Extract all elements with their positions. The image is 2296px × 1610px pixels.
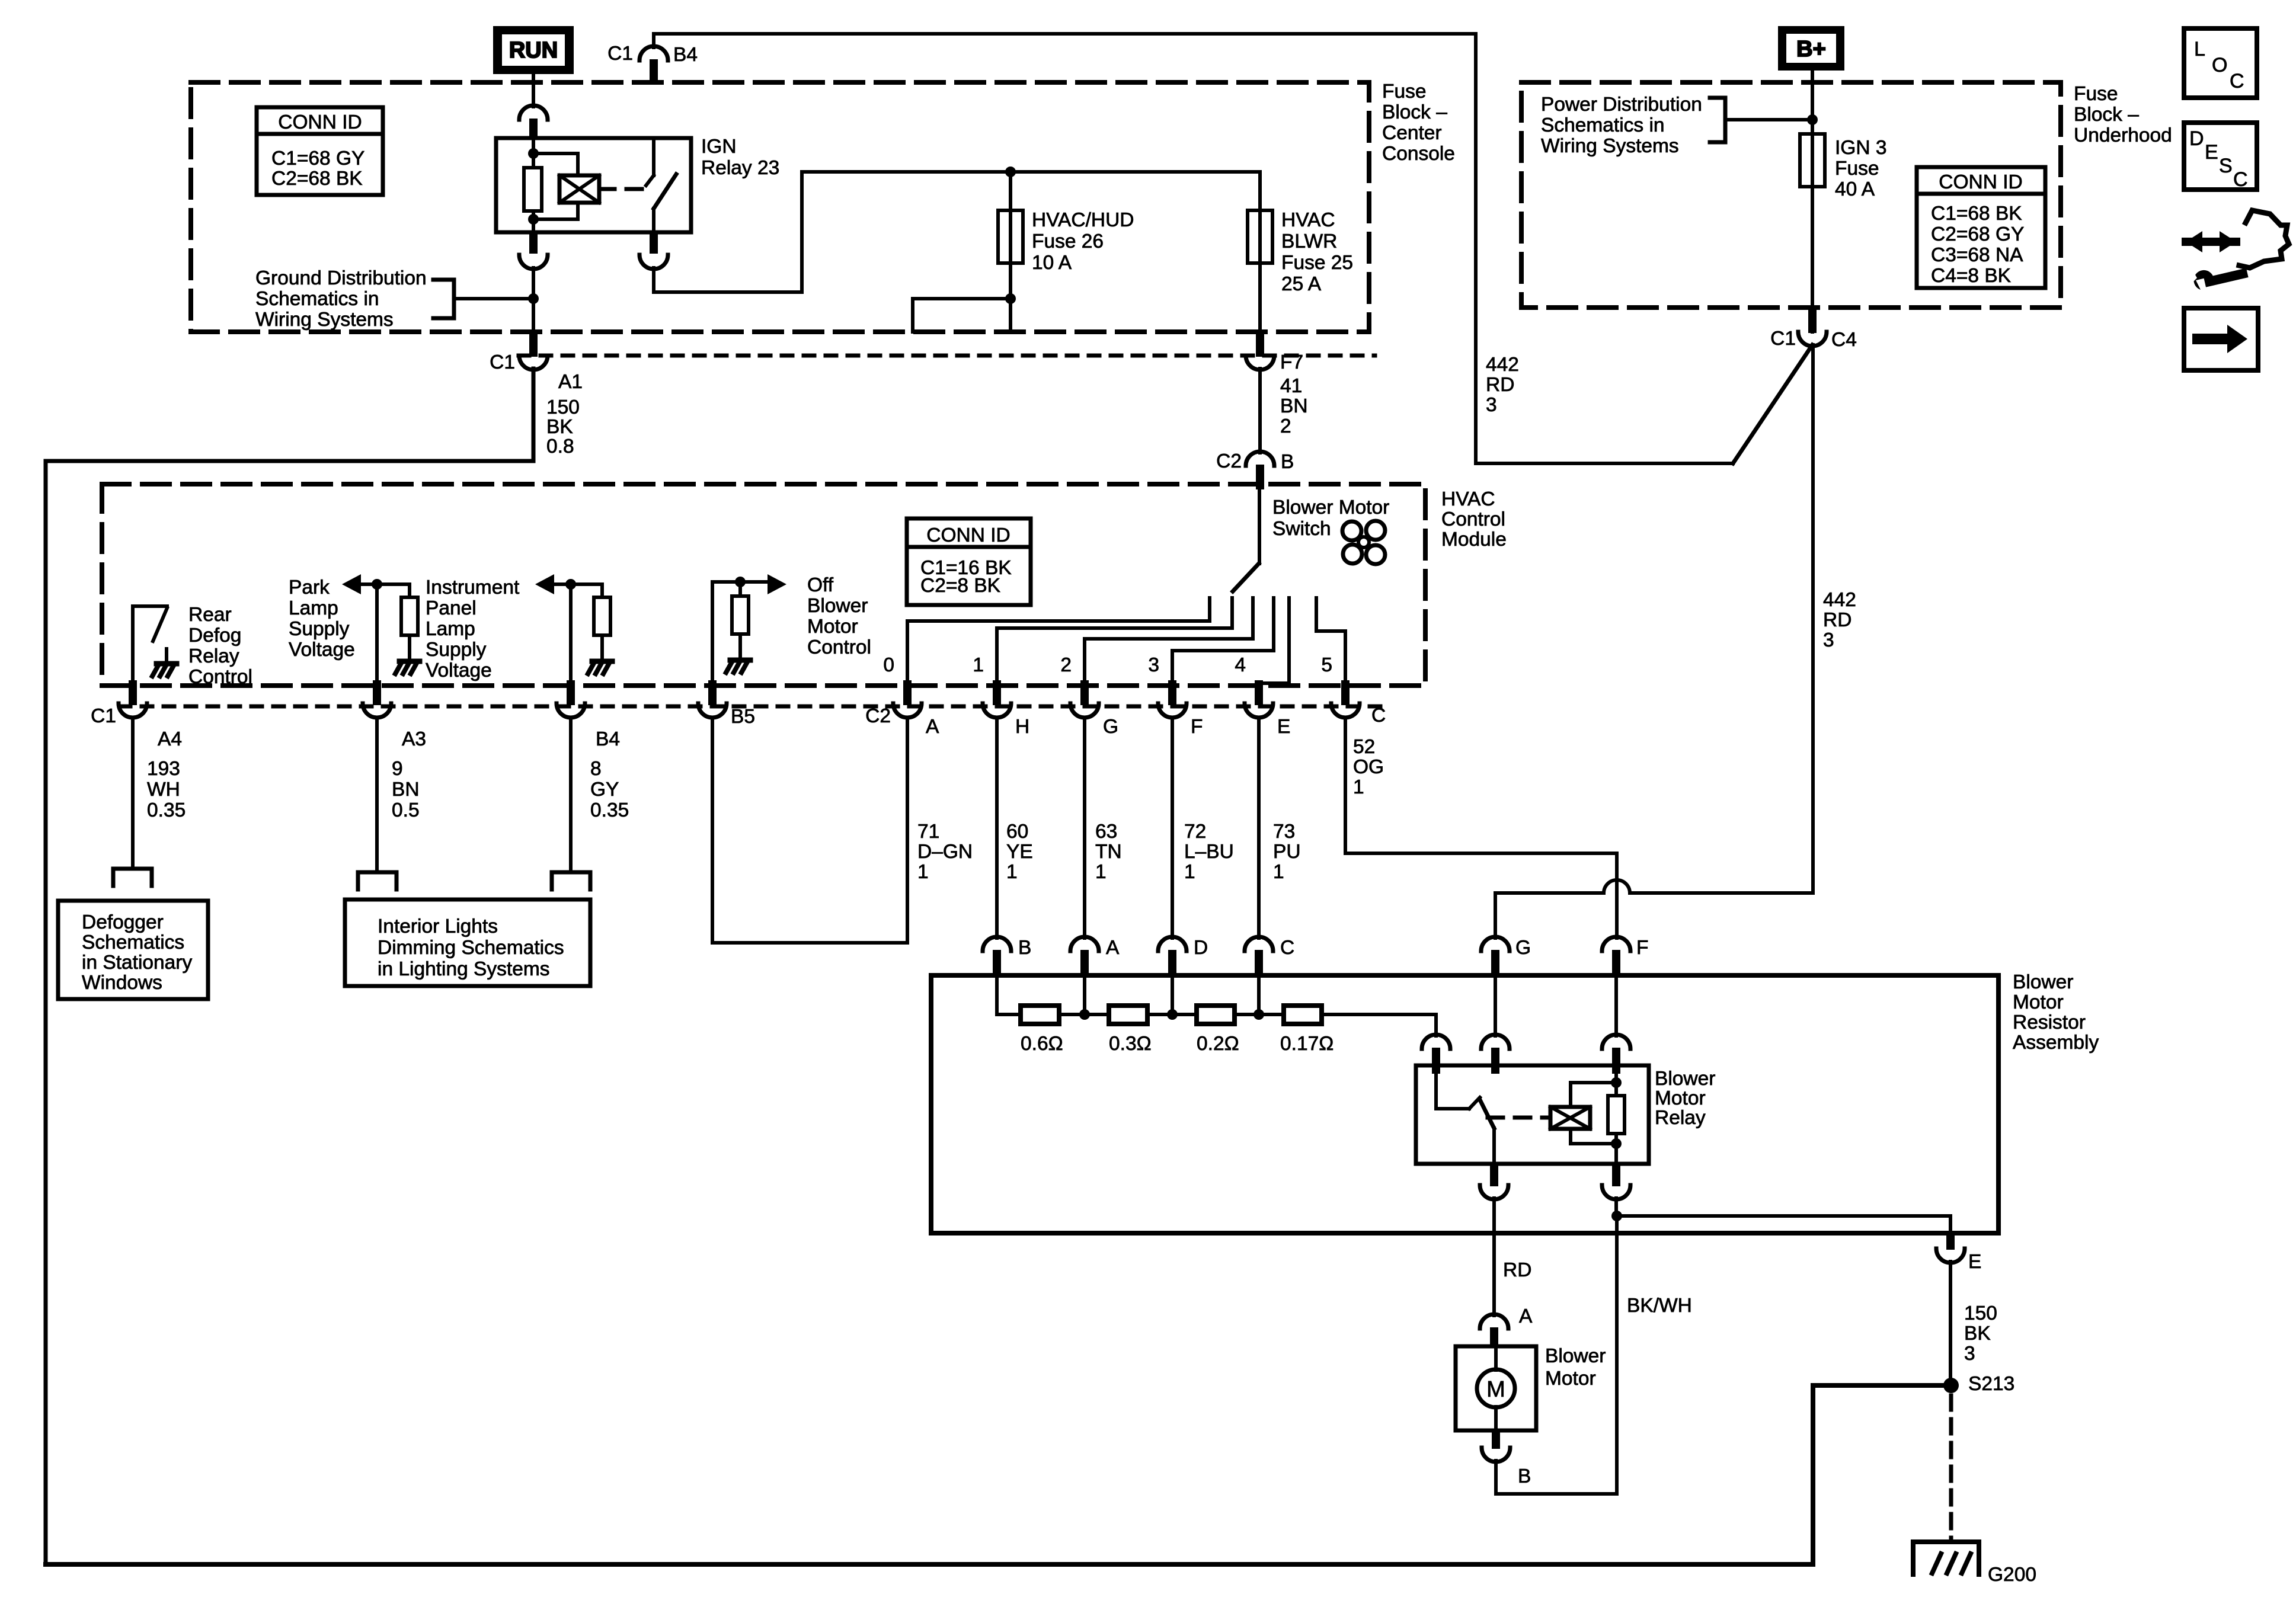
junction dot park lamp — [372, 579, 382, 590]
wire 41 BN 2 — [1258, 369, 1262, 453]
blower motor switch feed wire — [1258, 489, 1261, 564]
wire G to relay — [1494, 977, 1497, 1036]
junction dot D rail — [1167, 1009, 1178, 1020]
svg-text:Blower: Blower — [2013, 971, 2073, 993]
terminal staple A3 — [358, 872, 396, 889]
blower relay coil bracket — [1571, 1083, 1616, 1144]
svg-text:Instrument: Instrument — [426, 577, 520, 598]
off blower resistor — [738, 582, 742, 596]
ign relay coil resistor — [532, 138, 535, 168]
svg-text:Fuse: Fuse — [1835, 158, 1879, 180]
svg-text:Supply: Supply — [289, 618, 350, 640]
ign relay switch — [652, 138, 655, 175]
blower relay linkage dash — [1488, 1116, 1548, 1120]
svg-text:C: C — [2233, 168, 2248, 191]
svg-text:IGN 3: IGN 3 — [1835, 137, 1887, 159]
connector E (hvac module row) — [1255, 680, 1263, 705]
svg-text:Dimming Schematics: Dimming Schematics — [378, 937, 564, 959]
relay input connector (coil) — [1602, 1035, 1630, 1049]
resistor 0.17 ohm — [1284, 1006, 1322, 1024]
svg-text:3: 3 — [1964, 1343, 1975, 1365]
svg-text:OG: OG — [1353, 756, 1384, 778]
svg-text:9: 9 — [392, 758, 403, 780]
svg-text:PU: PU — [1273, 841, 1301, 863]
icon box DESC — [2184, 123, 2257, 190]
svg-text:1: 1 — [1273, 861, 1284, 883]
svg-text:in Lighting Systems: in Lighting Systems — [378, 958, 549, 980]
wire RUN to fuse block connector — [532, 74, 535, 107]
svg-text:HVAC/HUD: HVAC/HUD — [1032, 209, 1134, 231]
junction dot instrument panel — [565, 579, 576, 590]
svg-text:A4: A4 — [158, 728, 182, 750]
fuse IGN 3 40A — [1811, 134, 1814, 187]
connector E (resistor assembly) — [1946, 1233, 1955, 1250]
svg-text:0.17Ω: 0.17Ω — [1280, 1033, 1334, 1055]
connector A3 — [373, 680, 381, 705]
svg-text:Lamp: Lamp — [426, 618, 475, 640]
wire 193 WH 0.35 (A4) — [131, 719, 135, 869]
instrument panel ground — [600, 635, 604, 659]
svg-text:M: M — [1486, 1377, 1505, 1402]
instrument panel resistor — [594, 597, 610, 635]
svg-text:3: 3 — [1823, 629, 1834, 651]
svg-text:2: 2 — [1060, 654, 1072, 676]
wire B+ down — [1811, 71, 1814, 134]
svg-text:3: 3 — [1148, 654, 1159, 676]
off blower ground — [738, 634, 742, 658]
svg-text:H: H — [1015, 716, 1029, 738]
connector A (hvac module row) — [903, 680, 912, 705]
svg-text:Relay: Relay — [1655, 1107, 1706, 1129]
wire 52 OG 1 (C) — [1345, 718, 1617, 938]
junction dot ground distribution — [528, 293, 539, 304]
switch position 0 contact wire — [907, 598, 1210, 689]
svg-text:YE: YE — [1006, 841, 1033, 863]
wire fuse 25 down to F7 — [1258, 263, 1262, 332]
ign relay coil junction dots — [528, 148, 539, 159]
connector A4 — [129, 680, 137, 705]
svg-text:C1: C1 — [490, 351, 515, 373]
svg-text:C2: C2 — [865, 705, 891, 727]
ign relay coil bracket wire — [533, 153, 578, 219]
svg-text:Switch: Switch — [1272, 518, 1331, 540]
svg-text:Console: Console — [1382, 143, 1455, 165]
junction dots relay coil — [1611, 1077, 1622, 1088]
svg-text:CONN ID: CONN ID — [926, 524, 1010, 546]
svg-text:A: A — [1519, 1305, 1533, 1327]
connector A (resistor assembly) — [1070, 937, 1099, 951]
svg-text:Windows: Windows — [82, 972, 162, 994]
ground distribution bracket — [433, 280, 454, 318]
svg-text:71: 71 — [917, 821, 939, 843]
svg-text:0.35: 0.35 — [147, 799, 186, 821]
svg-text:BK/WH: BK/WH — [1627, 1295, 1692, 1317]
svg-text:C1=68 GY: C1=68 GY — [271, 148, 364, 169]
svg-text:D: D — [2189, 127, 2204, 150]
svg-text:E: E — [1968, 1251, 1981, 1273]
svg-text:Resistor: Resistor — [2013, 1012, 2086, 1033]
svg-text:Schematics in: Schematics in — [255, 288, 379, 310]
junction dot B+ feed — [1807, 114, 1818, 125]
svg-text:0.35: 0.35 — [590, 799, 629, 821]
connector B blower motor — [1492, 1430, 1500, 1449]
svg-text:BLWR: BLWR — [1281, 231, 1337, 252]
svg-text:BK: BK — [546, 416, 573, 438]
svg-text:Defogger: Defogger — [82, 911, 164, 933]
svg-text:C1=68 BK: C1=68 BK — [1931, 203, 2022, 225]
connector below relay (switch output) — [1490, 1164, 1498, 1186]
wire BK/WH from motor — [1496, 1216, 1617, 1494]
wire B5 to A loop — [712, 719, 907, 943]
blower relay coil wire — [1614, 1074, 1618, 1096]
wire A3 pin — [375, 584, 379, 686]
svg-text:1: 1 — [1184, 861, 1195, 883]
relay input connector (switch output) — [1481, 1035, 1510, 1049]
svg-text:52: 52 — [1353, 736, 1375, 758]
svg-text:S: S — [2219, 155, 2233, 177]
connector A blower motor — [1480, 1314, 1508, 1329]
svg-text:2: 2 — [1280, 415, 1291, 437]
svg-text:C1: C1 — [1770, 328, 1796, 350]
svg-text:60: 60 — [1006, 821, 1028, 843]
wire junction to fuse 26 — [1009, 172, 1012, 210]
svg-text:TN: TN — [1095, 841, 1122, 863]
svg-text:GY: GY — [590, 779, 619, 801]
connector H (hvac module row) — [993, 680, 1001, 705]
connector F (resistor assembly) — [1602, 937, 1630, 951]
svg-text:Relay: Relay — [188, 645, 239, 667]
blower motor box — [1456, 1346, 1536, 1430]
wire D into resistor network — [1171, 977, 1174, 1014]
svg-text:S213: S213 — [1968, 1373, 2014, 1395]
svg-text:C4: C4 — [1831, 329, 1857, 351]
wire 73 PU 1 (E) — [1257, 718, 1261, 938]
switch position 1 contact wire — [997, 598, 1232, 689]
connector C2 B into hvac module — [1246, 452, 1274, 466]
connector below relay switch — [650, 232, 658, 254]
svg-text:Supply: Supply — [426, 639, 487, 661]
svg-text:C4=8 BK: C4=8 BK — [1931, 265, 2011, 287]
wire 150 BK 3 — [1949, 1262, 1952, 1381]
svg-text:A3: A3 — [402, 728, 426, 750]
interior lights dimming box — [345, 900, 590, 986]
svg-text:Schematics: Schematics — [82, 932, 184, 953]
svg-text:RD: RD — [1503, 1259, 1531, 1281]
fan icon — [1342, 521, 1385, 564]
svg-text:Blower: Blower — [1655, 1068, 1715, 1090]
terminal staple B4 — [552, 872, 590, 889]
svg-text:Control: Control — [1441, 508, 1505, 530]
svg-text:Voltage: Voltage — [426, 660, 492, 681]
svg-text:40 A: 40 A — [1835, 178, 1875, 200]
wire S213 to bottom run — [46, 1385, 1951, 1564]
connector B (resistor assembly) — [983, 937, 1011, 951]
connector C (resistor assembly) — [1245, 937, 1273, 951]
svg-text:HVAC: HVAC — [1281, 209, 1335, 231]
connector C1 C4 — [1808, 308, 1817, 333]
svg-text:Fuse: Fuse — [1382, 81, 1426, 103]
instrument panel supply wire — [552, 584, 602, 597]
svg-text:3: 3 — [1486, 394, 1497, 416]
svg-text:41: 41 — [1280, 375, 1302, 397]
svg-text:C1: C1 — [607, 43, 633, 65]
connector C (hvac module row) — [1341, 680, 1350, 705]
connector D (resistor assembly) — [1158, 937, 1187, 951]
resistor 0.3 ohm — [1109, 1006, 1147, 1024]
svg-text:Wiring Systems: Wiring Systems — [1541, 135, 1679, 157]
svg-text:Motor: Motor — [1655, 1087, 1706, 1109]
svg-text:B: B — [1018, 937, 1031, 959]
svg-text:B5: B5 — [731, 706, 755, 728]
connector G (hvac module row) — [1080, 680, 1089, 705]
svg-text:Motor: Motor — [2013, 991, 2064, 1013]
svg-text:B: B — [1518, 1465, 1531, 1487]
svg-text:4: 4 — [1235, 654, 1246, 676]
ground G200 — [1913, 1542, 1979, 1574]
wire ign3 fuse to C1 C4 — [1811, 187, 1814, 332]
svg-text:Module: Module — [1441, 529, 1507, 550]
conn id table (center console) — [257, 107, 383, 195]
junction dot off blower — [735, 577, 746, 587]
svg-text:CONN ID: CONN ID — [278, 111, 362, 133]
svg-text:Rear: Rear — [188, 604, 232, 626]
connector below RUN (ign relay coil pin) — [519, 105, 548, 120]
svg-text:Schematics in: Schematics in — [1541, 114, 1665, 136]
icon box LOC — [2184, 28, 2257, 98]
svg-text:F: F — [1191, 716, 1203, 738]
wire 8 GY 0.35 (B4) — [569, 719, 573, 872]
defogger schematics box — [58, 901, 208, 999]
resistor network rail — [997, 1013, 1021, 1016]
svg-text:0.6Ω: 0.6Ω — [1021, 1033, 1063, 1055]
wire to E connector — [1617, 1216, 1950, 1233]
blower relay switch — [1436, 1074, 1469, 1109]
off blower arrow — [768, 574, 786, 594]
rear defog relay control switch symbol — [133, 606, 167, 686]
wire F to relay coil — [1614, 977, 1618, 1036]
svg-text:F7: F7 — [1280, 351, 1303, 373]
svg-text:Blower: Blower — [807, 595, 868, 617]
svg-text:G: G — [1515, 937, 1531, 959]
power source box RUN — [493, 26, 574, 74]
svg-text:442: 442 — [1823, 589, 1856, 611]
svg-text:Assembly: Assembly — [2013, 1032, 2099, 1054]
connector F (hvac module row) — [1168, 680, 1176, 705]
off blower motor control wire — [712, 582, 768, 686]
ign relay solenoid box — [559, 175, 599, 203]
wire fuse 26 to block edge — [1009, 263, 1012, 332]
svg-text:C: C — [2230, 70, 2244, 92]
svg-text:193: 193 — [147, 758, 180, 780]
blower motor relay box — [1416, 1065, 1649, 1164]
svg-text:0: 0 — [883, 654, 894, 676]
svg-text:0.5: 0.5 — [392, 799, 420, 821]
fuse 25 HVAC BLWR — [1258, 210, 1262, 263]
svg-text:WH: WH — [147, 779, 180, 801]
wire 442 RD 3 down right side — [1811, 345, 1815, 893]
fuse block - center console dashed box — [191, 82, 1369, 332]
conn id table (hvac module) — [907, 518, 1031, 605]
svg-text:C2=68 GY: C2=68 GY — [1931, 223, 2024, 245]
instrument panel arrow — [535, 574, 554, 594]
resistor 0.2 ohm — [1197, 1006, 1235, 1024]
svg-text:C3=68 NA: C3=68 NA — [1931, 244, 2023, 266]
wire relay switch to fuse rail — [654, 172, 1260, 292]
svg-text:C1: C1 — [91, 705, 116, 727]
svg-text:10 A: 10 A — [1032, 252, 1072, 274]
connector below relay (coil) — [1612, 1164, 1620, 1186]
connector C1 B4 — [639, 46, 668, 60]
svg-text:D: D — [1194, 937, 1208, 959]
junction dot below fuse 26 — [1005, 293, 1016, 304]
svg-text:8: 8 — [590, 758, 602, 780]
svg-text:G: G — [1103, 716, 1118, 738]
connector G (resistor assembly) — [1481, 937, 1510, 951]
park lamp ground — [408, 635, 411, 659]
svg-text:Control: Control — [807, 636, 871, 658]
icon door with arrow and wrench — [2186, 238, 2236, 246]
wire to ground distribution bracket — [454, 297, 533, 300]
wire B4 pin — [569, 584, 573, 686]
switch position 2 contact wire — [1085, 598, 1253, 689]
switch position 4 contact wire — [1259, 598, 1289, 689]
svg-text:Ground Distribution: Ground Distribution — [255, 267, 427, 289]
svg-text:Block –: Block – — [1382, 101, 1447, 123]
blower relay coil resistor — [1608, 1096, 1625, 1134]
svg-text:C2: C2 — [1216, 450, 1242, 472]
connector C1 A1 — [529, 332, 538, 357]
junction dot A rail — [1079, 1009, 1090, 1020]
wire 9 BN 0.5 (A3) — [375, 719, 379, 872]
resistor 0.6 ohm — [1021, 1006, 1059, 1024]
blower motor resistor assembly box — [931, 975, 1998, 1233]
svg-text:Park: Park — [289, 577, 330, 598]
svg-text:B4: B4 — [596, 728, 620, 750]
svg-text:1: 1 — [973, 654, 984, 676]
svg-text:B+: B+ — [1796, 37, 1826, 62]
svg-text:F: F — [1636, 937, 1648, 959]
diagonal wire from run feed to C1 C4 — [1733, 345, 1812, 463]
blower motor switch blade — [1233, 564, 1259, 591]
wire 72 L-BU 1 (F) — [1171, 718, 1174, 938]
stub wire below fuse 26 — [913, 299, 1011, 332]
wire A into resistor network — [1083, 977, 1086, 1014]
power distribution bracket — [1710, 98, 1725, 142]
svg-text:Interior Lights: Interior Lights — [378, 916, 498, 937]
wire RD to blower motor — [1492, 1198, 1496, 1315]
svg-text:73: 73 — [1273, 821, 1295, 843]
svg-text:63: 63 — [1095, 821, 1117, 843]
junction dot C rail — [1253, 1009, 1264, 1020]
connector below relay coil — [529, 232, 538, 254]
svg-text:Underhood: Underhood — [2074, 124, 2172, 146]
switch position 3 contact wire — [1172, 598, 1274, 689]
svg-text:RUN: RUN — [509, 38, 558, 63]
blower motor M circle — [1477, 1369, 1515, 1407]
hvac control module dashed box — [102, 484, 1425, 686]
svg-text:BK: BK — [1964, 1323, 1991, 1345]
svg-text:A1: A1 — [558, 371, 583, 393]
svg-text:5: 5 — [1321, 654, 1332, 676]
svg-text:L: L — [2194, 38, 2205, 60]
svg-text:C2=68 BK: C2=68 BK — [271, 168, 363, 190]
connector row dotted line (center console) — [519, 354, 1375, 358]
junction dot fuse 26 tap — [1005, 167, 1016, 177]
svg-text:Panel: Panel — [426, 597, 477, 619]
svg-text:B4: B4 — [673, 44, 698, 66]
svg-text:1: 1 — [1095, 861, 1107, 883]
fuse block - underhood dashed box — [1521, 82, 2061, 308]
junction dot coil ground wire — [1611, 1211, 1622, 1221]
svg-text:C2=8 BK: C2=8 BK — [920, 575, 1000, 597]
wire relay coil to ground distribution junction — [532, 268, 535, 332]
svg-text:25 A: 25 A — [1281, 273, 1322, 295]
svg-text:G200: G200 — [1988, 1564, 2036, 1586]
svg-text:150: 150 — [1964, 1302, 1997, 1324]
icon box arrow — [2184, 308, 2258, 370]
svg-text:Center: Center — [1382, 122, 1442, 144]
wire 150 BK 0.8 down-left — [46, 369, 533, 1564]
connector row dotted line (hvac module) — [120, 705, 1384, 709]
connector B4 — [567, 680, 575, 705]
terminal staple A4 — [113, 869, 152, 886]
svg-text:1: 1 — [1006, 861, 1018, 883]
svg-text:Lamp: Lamp — [289, 597, 338, 619]
svg-text:Fuse 25: Fuse 25 — [1281, 252, 1353, 274]
svg-text:Blower: Blower — [1545, 1345, 1606, 1367]
wire 442 RD to G connector with hop — [1495, 880, 1813, 938]
switch position 5 contact wire — [1316, 598, 1345, 689]
conn id table (underhood) — [1917, 167, 2045, 288]
svg-text:Power Distribution: Power Distribution — [1541, 94, 1702, 116]
park lamp resistor — [401, 597, 418, 635]
svg-text:0.2Ω: 0.2Ω — [1197, 1033, 1239, 1055]
svg-text:Wiring Systems: Wiring Systems — [255, 309, 394, 331]
connector B5 — [708, 680, 717, 705]
svg-text:Motor: Motor — [1545, 1368, 1596, 1390]
dashed wire S213 to G200 — [1949, 1395, 1953, 1542]
svg-text:HVAC: HVAC — [1441, 488, 1495, 510]
svg-text:Off: Off — [807, 574, 834, 596]
svg-text:IGN: IGN — [701, 136, 737, 158]
svg-text:L–BU: L–BU — [1184, 841, 1234, 863]
top feed wire from connector C1 B4 — [654, 34, 1733, 463]
svg-text:0.8: 0.8 — [546, 436, 574, 457]
svg-text:A: A — [1106, 937, 1120, 959]
svg-text:Relay 23: Relay 23 — [701, 157, 779, 179]
svg-text:BN: BN — [392, 779, 420, 801]
svg-text:150: 150 — [546, 396, 580, 418]
svg-text:442: 442 — [1486, 354, 1519, 376]
wire bracket to B+ feed — [1725, 118, 1812, 121]
svg-text:Motor: Motor — [807, 616, 858, 638]
svg-text:0.3Ω: 0.3Ω — [1109, 1033, 1152, 1055]
svg-text:A: A — [926, 716, 939, 738]
svg-text:1: 1 — [917, 861, 929, 883]
svg-text:1: 1 — [1353, 776, 1364, 798]
svg-text:C: C — [1371, 705, 1386, 726]
wire B into resistor network — [995, 977, 999, 1014]
blower relay solenoid box — [1550, 1107, 1590, 1129]
svg-text:B: B — [1281, 451, 1294, 473]
svg-text:C: C — [1280, 937, 1294, 959]
svg-text:Voltage: Voltage — [289, 639, 355, 661]
power source box B+ — [1778, 26, 1844, 71]
svg-text:BN: BN — [1280, 395, 1308, 417]
svg-text:Control: Control — [188, 666, 252, 688]
svg-text:E: E — [2205, 141, 2218, 164]
svg-text:Block –: Block – — [2074, 104, 2139, 126]
